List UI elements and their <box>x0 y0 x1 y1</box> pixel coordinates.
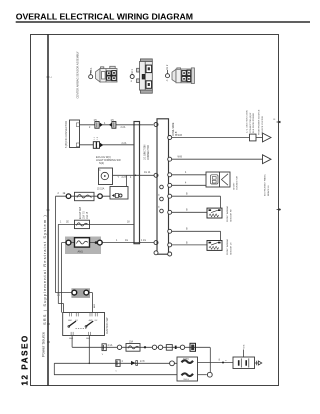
svg-text:1G: 1G <box>125 240 128 242</box>
svg-text:SOURCE SYSTEM: SOURCE SYSTEM <box>262 116 264 135</box>
svg-text:IH 2: IH 2 <box>165 64 169 69</box>
svg-text:1J 1 JUNCTION CONN: 1J 1 JUNCTION CONN <box>247 110 249 133</box>
svg-text:W-B: W-B <box>178 157 183 159</box>
svg-text:W-B: W-B <box>178 135 183 137</box>
svg-text:CENTER AIRBAG SENSOR ASSEMBLY: CENTER AIRBAG SENSOR ASSEMBLY <box>75 51 79 98</box>
svg-text:1H: 1H <box>94 120 97 122</box>
svg-text:4 1A: 4 1A <box>108 344 113 347</box>
svg-text:ECU-B W-B: ECU-B W-B <box>80 206 82 219</box>
svg-text:AM1: AM1 <box>69 337 73 340</box>
svg-text:15A 7.5: 15A 7.5 <box>83 210 86 219</box>
svg-text:SHORT: SHORT <box>233 182 235 190</box>
svg-text:FRONT AIRBAG: FRONT AIRBAG <box>226 238 229 255</box>
svg-text:N(2): N(2) <box>99 161 104 165</box>
svg-text:1G JUNCTION: 1G JUNCTION <box>145 144 147 160</box>
svg-text:FRONT AIRBAG: FRONT AIRBAG <box>226 205 229 222</box>
svg-text:SENSOR RH: SENSOR RH <box>230 209 232 222</box>
svg-text:IGNITION SW: IGNITION SW <box>105 317 109 334</box>
svg-text:FROM POWER SOURCE: FROM POWER SOURCE <box>259 109 261 135</box>
svg-text:10A 15: 10A 15 <box>86 211 89 219</box>
svg-text:CABLE: CABLE <box>183 378 190 381</box>
svg-text:IH 1: IH 1 <box>130 69 134 74</box>
svg-text:BRACE LH: BRACE LH <box>267 185 270 196</box>
svg-text:INSTRUMENT PANEL: INSTRUMENT PANEL <box>264 173 267 196</box>
svg-text:2 2A: 2 2A <box>121 126 126 129</box>
svg-text:SRS ( Supplemental Restraint S: SRS ( Supplemental Restraint System ) <box>42 214 47 325</box>
svg-text:1E: 1E <box>63 193 66 195</box>
svg-text:SENSOR LH: SENSOR LH <box>230 242 232 255</box>
svg-text:1H: 1H <box>111 120 114 122</box>
svg-text:1G 14: 1G 14 <box>144 172 151 174</box>
svg-text:1E: 1E <box>66 221 69 223</box>
svg-text:AM1: AM1 <box>68 319 72 322</box>
svg-text:OVERALL ELECTRICAL WIRING DIAG: OVERALL ELECTRICAL WIRING DIAGRAM <box>16 11 193 21</box>
svg-text:12 PASEO: 12 PASEO <box>21 334 30 385</box>
svg-text:W-B FROM POWER: W-B FROM POWER <box>253 112 255 133</box>
svg-text:2 2A: 2 2A <box>122 142 127 145</box>
svg-text:2 2Y: 2 2Y <box>122 177 127 179</box>
svg-text:CONNECTOR: CONNECTOR <box>237 176 239 190</box>
svg-text:AM1: AM1 <box>78 249 84 253</box>
svg-text:Power Source: Power Source <box>41 331 46 357</box>
svg-text:W-B: W-B <box>244 344 246 349</box>
svg-text:15A: 15A <box>129 340 134 343</box>
svg-text:COWL WIRE: COWL WIRE <box>173 122 175 136</box>
svg-text:1 1G: 1 1G <box>141 240 146 242</box>
svg-text:2J 8: 2J 8 <box>140 361 145 363</box>
svg-text:CONNECTOR: CONNECTOR <box>148 145 150 160</box>
svg-text:CONNECTOR (A) W: CONNECTOR (A) W <box>249 112 252 133</box>
svg-text:IG2: IG2 <box>94 320 97 322</box>
svg-text:SPIRAL: SPIRAL <box>183 358 189 361</box>
svg-text:5 (B) FR CONNECTOR: 5 (B) FR CONNECTOR <box>64 121 68 148</box>
svg-text:15 15A: 15 15A <box>97 188 105 191</box>
